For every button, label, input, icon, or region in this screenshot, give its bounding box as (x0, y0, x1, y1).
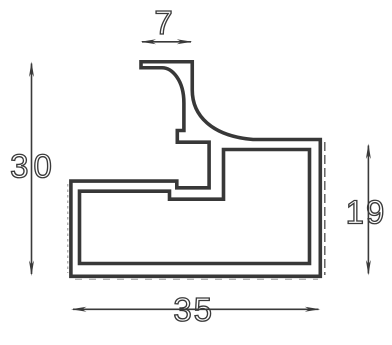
dimension line 30 (left overall height) (31, 64, 33, 275)
sketch double-stroke right side (324, 142, 326, 275)
arrowhead bottom of 19 dim (366, 260, 371, 276)
svg-text:19: 19 (346, 193, 387, 230)
dimension line 19 (right block height) (367, 146, 369, 274)
arrowhead top of 30 dim (29, 62, 34, 78)
svg-text:3: 3 (10, 148, 28, 185)
arrowhead right of 35 dim (305, 307, 321, 312)
svg-text:0: 0 (34, 148, 52, 185)
dimension line 7 (top width of hook) (142, 41, 191, 43)
arrowhead right of 7 dim (177, 39, 193, 44)
inner hollow chamber outline (80, 150, 310, 264)
profile outer outline (71, 62, 320, 277)
svg-text:35: 35 (173, 291, 214, 328)
arrowhead top of 19 dim (366, 144, 371, 160)
sketch double-stroke left side (67, 184, 69, 273)
arrowhead left of 35 dim (71, 307, 87, 312)
sketch double-stroke bottom side (75, 278, 318, 280)
arrowhead left of 7 dim (141, 39, 157, 44)
dimension line 35 (bottom overall width) (73, 308, 319, 310)
arrowhead bottom of 30 dim (29, 261, 34, 277)
svg-text:7: 7 (154, 4, 174, 41)
